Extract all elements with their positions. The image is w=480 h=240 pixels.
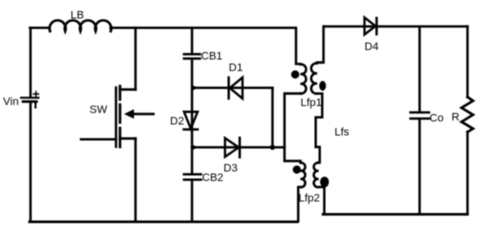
svg-text:LB: LB — [71, 9, 84, 21]
svg-text:D3: D3 — [224, 163, 238, 175]
svg-text:D4: D4 — [365, 41, 379, 53]
svg-text:Co: Co — [430, 112, 444, 124]
svg-text:CB2: CB2 — [202, 172, 223, 184]
svg-text:Lfp2: Lfp2 — [299, 193, 320, 205]
svg-text:Lfs: Lfs — [335, 126, 350, 138]
svg-text:D2: D2 — [170, 115, 184, 127]
svg-text:R: R — [452, 111, 460, 123]
svg-text:CB1: CB1 — [201, 51, 222, 63]
svg-text:D1: D1 — [229, 62, 243, 74]
svg-text:SW: SW — [90, 104, 108, 116]
svg-text:Lfp1: Lfp1 — [301, 97, 322, 109]
svg-text:Vin: Vin — [3, 96, 19, 108]
